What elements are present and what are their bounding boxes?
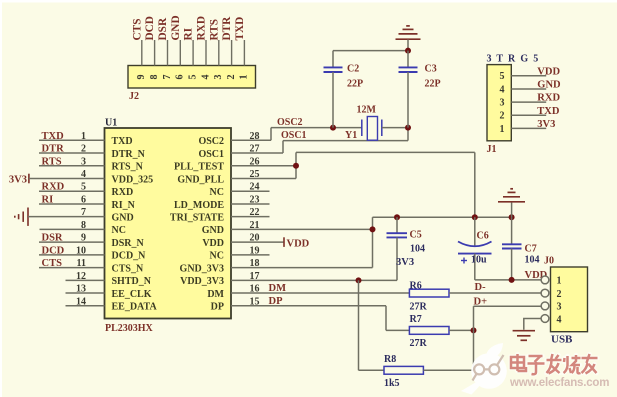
svg-text:GND: GND [202,225,224,236]
wire U1 pin 2 [39,152,105,154]
svg-text:CTS: CTS [42,258,63,269]
svg-text:VDD: VDD [287,238,310,249]
svg-text:7: 7 [162,75,173,80]
svg-text:U1: U1 [105,118,117,129]
svg-text:SHTD_N: SHTD_N [112,276,152,287]
svg-text:DSR_N: DSR_N [112,238,145,249]
J2 pin 5 wire [192,40,194,66]
watermark logo leaf [461,343,507,395]
svg-text:2: 2 [226,75,237,80]
wire pin27 riser [282,141,284,153]
svg-text:9: 9 [81,233,86,244]
svg-text:D+: D+ [474,297,488,308]
wire U1 pin 5 [39,190,105,192]
svg-text:5: 5 [187,75,198,80]
wire U1 pin 22 stub [231,216,270,218]
wire GND rail [373,216,512,218]
svg-text:DCD_N: DCD_N [112,251,147,262]
wire crystal right to node [382,127,408,129]
svg-text:J0: J0 [544,256,554,267]
wire U1 pin 3 [39,165,105,167]
svg-text:R8: R8 [384,354,396,365]
crystal Y1 12M [362,117,382,141]
wire C3 bottom lead [407,72,409,128]
svg-text:VDD: VDD [202,238,224,249]
svg-text:GND_PLL: GND_PLL [177,174,224,185]
svg-text:R7: R7 [410,314,422,325]
svg-text:1k5: 1k5 [384,378,400,389]
J0 pin 3 circle [541,302,549,310]
svg-text:1: 1 [500,124,505,135]
ground (rail) [498,189,525,202]
svg-text:DCD: DCD [144,16,156,40]
J1 pin 1 wire [511,127,546,129]
svg-text:C5: C5 [410,230,422,241]
wire U1 pin 25 [231,177,296,179]
wire D+ to J0 pin 3 [474,305,542,307]
junction 3V3/R8 [356,277,362,283]
svg-text:2: 2 [557,289,562,300]
wire U1 pin 28 [231,139,271,141]
wire D- to J0 pin 2 [449,292,541,294]
wire U1 pin 7 (GND) [28,216,105,218]
svg-text:EE_CLK: EE_CLK [112,289,152,300]
svg-text:RXD: RXD [537,93,560,104]
svg-text:RXD: RXD [196,16,208,40]
ground (crystal caps) [396,26,421,39]
wire U1 pin 24 stub [231,190,270,192]
svg-text:13: 13 [76,284,86,295]
wire net OSC1 [283,140,408,142]
wire R7 left lead [386,329,409,331]
svg-text:22P: 22P [347,79,363,90]
junction C5 top [394,214,400,220]
J1 pin 4 wire [511,88,546,90]
wire C5 top lead [396,217,398,233]
svg-text:2: 2 [81,144,86,155]
svg-text:GND: GND [170,15,182,40]
svg-text:PL2303HX: PL2303HX [105,323,154,334]
svg-text:CTS_N: CTS_N [112,263,144,274]
svg-text:GND: GND [537,79,561,90]
wire U1 pin 27 [231,152,283,154]
svg-text:104: 104 [525,255,540,266]
svg-text:22P: 22P [425,79,441,90]
svg-text:CTS: CTS [131,19,143,41]
wire U1 pin 6 [39,203,105,205]
svg-text:C7: C7 [525,244,537,255]
svg-text:RTS: RTS [42,156,62,167]
wire gnd stem mid [511,203,513,218]
J0 pin 4 wire [524,319,541,330]
J2 pin 6 wire [179,40,181,66]
svg-text:DM: DM [207,289,224,300]
svg-text:NC: NC [210,187,224,198]
svg-text:3 T R G 5: 3 T R G 5 [487,54,540,65]
junction R7/R8/D+ [471,327,477,333]
svg-text:8: 8 [81,220,86,231]
J2 pin 3 wire [218,40,220,66]
svg-text:DTR_N: DTR_N [112,149,146,160]
wire U1 pin 14 [66,305,105,307]
svg-text:RI: RI [183,27,195,40]
svg-text:RI: RI [42,194,54,205]
svg-text:Y1: Y1 [345,130,357,141]
wire pin28 riser [270,128,272,141]
svg-text:2: 2 [500,111,505,122]
wire U1 pin 8 [40,228,105,230]
wire U1 pin 12 [66,279,105,281]
wire U1 pin 18 (GND_3V3) [231,267,373,269]
svg-text:5: 5 [500,71,505,82]
svg-text:DM: DM [269,283,287,294]
svg-text:TXD: TXD [537,106,560,117]
wire DP riser [385,306,387,331]
J0 pin 2 circle [541,289,549,297]
svg-text:GND: GND [112,212,134,223]
wire U1 pin 20 [231,241,284,243]
svg-text:OSC2: OSC2 [277,117,303,128]
wire U1 pin 23 stub [231,203,270,205]
wire C6 top lead [474,217,476,245]
svg-text:3: 3 [213,75,224,80]
svg-text:C3: C3 [425,64,437,75]
svg-text:12: 12 [76,271,86,282]
wire U1 pin 19 stub [231,254,270,256]
junction C6 top [472,214,478,220]
svg-text:GND_3V3: GND_3V3 [180,263,224,274]
wire gnd stem [407,40,409,51]
svg-text:104: 104 [410,244,425,255]
J2 pin 7 wire [167,40,169,66]
svg-text:C6: C6 [477,231,489,242]
svg-text:VDD: VDD [537,66,560,77]
wire C2 bottom lead [332,72,334,128]
svg-text:OSC1: OSC1 [281,130,307,141]
svg-text:TXD: TXD [234,17,246,41]
connector J2 [128,66,256,89]
J2 pin 9 wire [141,40,143,66]
svg-text:NC: NC [210,251,224,262]
svg-text:1: 1 [557,276,562,287]
svg-text:VDD_325: VDD_325 [112,174,154,185]
svg-text:PLL_TEST: PLL_TEST [174,162,224,173]
wire U1 pin 16 (DM) [231,292,409,294]
svg-text:10u: 10u [471,255,487,266]
svg-text:3V3: 3V3 [396,257,414,268]
svg-text:9: 9 [136,75,147,80]
junction gnd/top rail [405,48,411,54]
wire R8 left lead [359,369,385,371]
wire U1 pin 9 [39,241,105,243]
svg-text:TRI_STATE: TRI_STATE [170,212,224,223]
wire gnd left drop [372,217,374,267]
wire U1 pin 4 (3V3) [29,177,105,179]
J1 pin 2 wire [511,114,546,116]
svg-text:RI_N: RI_N [112,200,136,211]
J2 pin 4 wire [205,40,207,66]
wire R8 to D+ riser [473,330,475,370]
wire R8 riser from 3V3 [358,280,360,370]
svg-text:10: 10 [76,245,86,256]
wire U1 pin 11 [39,267,105,269]
wire net OSC2 [271,127,362,129]
svg-text:DTR: DTR [221,16,233,41]
svg-text:EE_DATA: EE_DATA [112,302,158,313]
junction C3/OSC1 [405,125,411,131]
J1 pin 3 wire [511,101,546,103]
svg-text:12M: 12M [357,105,377,116]
svg-text:4: 4 [500,84,505,95]
svg-text:4: 4 [557,314,562,325]
wire U1 pin 1 [39,139,105,141]
junction C7 bottom/VDD [509,277,515,283]
power port VDD (pin 20) [283,237,285,247]
wire VDD row [475,279,541,281]
svg-text:OSC1: OSC1 [198,149,224,160]
svg-text:C2: C2 [347,64,359,75]
svg-text:8: 8 [149,75,160,80]
svg-text:www.elecfans.com: www.elecfans.com [509,377,609,389]
wire C3 top lead [407,51,409,68]
wire pin25/26 riser [295,152,297,178]
svg-text:D-: D- [475,282,487,293]
junction pin25/26 [293,163,299,169]
wire R7 right lead [449,329,474,331]
junction C7/gnd [509,214,515,220]
svg-text:27R: 27R [410,301,428,312]
IC U1 PL2303HX body [105,128,232,319]
svg-text:3V3: 3V3 [9,175,27,186]
wire D+ riser [473,306,475,330]
svg-text:5: 5 [81,182,86,193]
svg-text:1: 1 [239,75,250,80]
svg-text:3: 3 [500,98,505,109]
svg-text:6: 6 [175,75,186,80]
wire C2top-C3top-GND [333,50,408,52]
J2 pin 8 wire [154,40,156,66]
svg-text:14: 14 [76,296,86,307]
wire OSC1 riser to crystal [407,128,409,141]
svg-text:3: 3 [81,156,86,167]
svg-text:11: 11 [77,258,86,269]
wire U1 pin 15 (DP) [231,305,386,307]
wire C6 bottom lead [474,254,476,280]
wire U1 pin 26 [231,165,296,167]
svg-text:3: 3 [557,302,562,313]
J2 pin 2 wire [231,40,233,66]
svg-text:J2: J2 [129,91,139,102]
J0 pin 1 circle [541,276,549,284]
svg-text:USB: USB [551,334,573,346]
junction pin21/gnd [370,226,376,232]
svg-text:3V3: 3V3 [537,119,555,130]
wire C7 bottom lead [511,249,513,280]
svg-text:RXD: RXD [42,182,65,193]
J1 pin 5 wire [511,75,546,77]
watermark chinese text [511,354,598,374]
power port 3V3 (pin 4) [28,174,30,184]
svg-text:LD_MODE: LD_MODE [174,200,224,211]
svg-text:VDD_3V3: VDD_3V3 [180,276,224,287]
svg-text:R6: R6 [410,280,422,291]
svg-text:TXD: TXD [42,131,65,142]
svg-text:27R: 27R [410,338,428,349]
wire U1 pin 10 [39,254,105,256]
wire U1 pin 13 [66,292,105,294]
J2 pin 1 wire [243,40,245,66]
svg-text:J1: J1 [487,144,497,155]
svg-text:DP: DP [211,302,224,313]
wire gnd run drop [474,152,476,217]
J0 pin 4 circle [541,315,549,323]
svg-text:RXD: RXD [112,187,134,198]
svg-text:OSC2: OSC2 [198,136,224,147]
svg-text:6: 6 [81,194,86,205]
svg-text:DTR: DTR [42,144,65,155]
svg-text:1: 1 [81,131,86,142]
svg-text:DCD: DCD [42,245,65,256]
svg-text:TXD: TXD [112,136,133,147]
connector J0 (USB) [551,267,588,332]
wire U1 pin 21 (GND) [231,228,373,230]
svg-text:4: 4 [200,75,211,80]
svg-text:RTS: RTS [208,19,220,41]
wire U1 pin 17 (VDD_3V3) / 3V3 row [231,279,397,281]
svg-text:DSR: DSR [157,17,169,40]
connector J1 [487,65,511,141]
junction C2/OSC2 [330,125,336,131]
wire C2 top lead [332,51,334,68]
svg-text:NC: NC [112,225,126,236]
svg-text:RTS_N: RTS_N [112,162,144,173]
ground (pin 7) [15,208,28,226]
svg-text:DSR: DSR [42,233,63,244]
wire R8 right lead [423,369,473,371]
wire C7 top lead [511,217,513,244]
wire C5 bottom lead [396,237,398,280]
wire gnd run top [296,151,475,153]
ground (USB shell) [513,331,535,341]
